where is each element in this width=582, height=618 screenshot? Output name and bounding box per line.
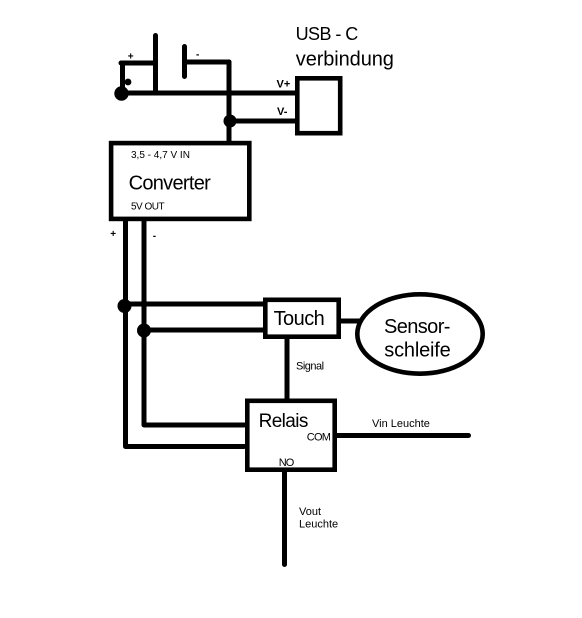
wire signal touch to relais bbox=[285, 338, 290, 399]
svg-text:+: + bbox=[110, 229, 116, 240]
wire NO to Vout Leuchte bbox=[282, 471, 287, 565]
svg-text:Converter: Converter bbox=[129, 173, 212, 195]
svg-text:Signal: Signal bbox=[296, 361, 324, 373]
wire node D to touch bbox=[144, 328, 264, 333]
svg-text:V-: V- bbox=[277, 106, 288, 118]
svg-text:Touch: Touch bbox=[274, 308, 325, 330]
node B junction dot bbox=[224, 115, 237, 128]
svg-text:schleife: schleife bbox=[384, 340, 450, 362]
node A junction dot bbox=[114, 86, 128, 100]
svg-text:V+: V+ bbox=[277, 79, 291, 91]
svg-text:Relais: Relais bbox=[259, 411, 308, 432]
battery positive plate bbox=[153, 36, 158, 94]
node D junction dot bbox=[137, 324, 151, 338]
svg-text:-: - bbox=[153, 231, 156, 242]
svg-text:Sensor-: Sensor- bbox=[384, 316, 450, 338]
wire COM to Vin Leuchte bbox=[337, 433, 469, 438]
svg-text:NO: NO bbox=[279, 457, 295, 469]
svg-text:-: - bbox=[196, 50, 199, 61]
converter box U1 bbox=[111, 143, 249, 219]
svg-text:COM: COM bbox=[307, 432, 331, 444]
wire battery + to plate bbox=[121, 61, 154, 66]
wire - rail converter to relais bbox=[144, 222, 244, 426]
svg-text:3,5 - 4,7 V IN: 3,5 - 4,7 V IN bbox=[131, 150, 190, 161]
touch module box bbox=[265, 300, 338, 337]
wire battery - to right bbox=[186, 60, 229, 65]
relais box K1 bbox=[247, 401, 334, 470]
svg-text:Vout: Vout bbox=[299, 506, 321, 518]
svg-text:Leuchte: Leuchte bbox=[299, 519, 338, 531]
wire touch to sensor loop bbox=[341, 319, 359, 324]
wire - down to converter bbox=[227, 62, 232, 142]
stray dot bbox=[125, 79, 132, 86]
wire + down to node A bbox=[120, 63, 125, 92]
wire + rail converter to relais bbox=[126, 222, 245, 447]
sensor loop ellipse bbox=[357, 294, 482, 373]
svg-text:Vin Leuchte: Vin Leuchte bbox=[372, 418, 430, 430]
wire V+ bus bbox=[122, 91, 297, 96]
wire V- bbox=[230, 119, 297, 124]
wire node C to touch bbox=[125, 302, 265, 307]
node C junction dot bbox=[118, 299, 132, 313]
battery negative plate bbox=[182, 47, 187, 77]
USB-C connector box bbox=[297, 78, 340, 133]
svg-text:USB - C: USB - C bbox=[296, 24, 359, 44]
svg-text:5V OUT: 5V OUT bbox=[131, 202, 165, 213]
svg-text:verbindung: verbindung bbox=[296, 49, 394, 71]
